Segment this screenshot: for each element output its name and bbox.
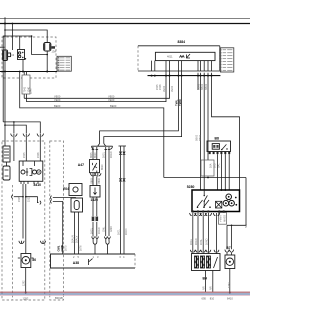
svg-text:8610: 8610 <box>98 177 101 183</box>
svg-text:BB00: BB00 <box>205 83 208 90</box>
wires bracket straight down <box>103 147 114 236</box>
horizontal link y=177.5 <box>164 177 246 212</box>
svg-text:1240: 1240 <box>28 86 31 92</box>
control unit A38 <box>51 254 136 268</box>
V384 pin stubs <box>152 61 212 71</box>
wires into heater unit <box>14 137 40 161</box>
connector pair 2 <box>23 134 29 137</box>
wire relay to bus <box>31 35 48 71</box>
connector merge 12 <box>92 237 99 255</box>
relay R1 <box>44 43 57 54</box>
svg-text:NR: NR <box>202 286 205 290</box>
heater control unit K1 <box>19 161 43 181</box>
svg-text:16CL: 16CL <box>118 228 121 235</box>
connector merge 13 <box>104 237 110 255</box>
supply line 1 <box>0 18 250 20</box>
wires to A38 <box>93 222 97 237</box>
svg-text:8410: 8410 <box>34 183 42 187</box>
connector pair 1 <box>11 134 17 137</box>
staircase wire 2 from V384 <box>104 71 182 144</box>
svg-text:NR: NR <box>245 224 248 228</box>
svg-text:8410: 8410 <box>227 297 233 301</box>
branch to connector right <box>25 196 41 205</box>
supply line BB00 <box>0 23 250 25</box>
wires bracket to A47 <box>92 147 111 160</box>
wires P2 down <box>93 197 97 216</box>
splice block S2 <box>92 217 98 222</box>
sensor E04a <box>69 184 82 196</box>
wire labels right pair <box>118 228 128 235</box>
wire drop to fuse A <box>12 23 14 50</box>
wires E04 down <box>75 212 79 254</box>
svg-text:16GD: 16GD <box>110 151 113 158</box>
svg-text:16CD: 16CD <box>125 228 128 235</box>
wire labels <box>18 196 31 202</box>
wire BE00 long run <box>20 72 164 178</box>
wire fuse A down <box>13 121 15 133</box>
B8 pin labels <box>210 163 221 168</box>
svg-text:4011: 4011 <box>167 55 173 59</box>
wire VE00 run 1 <box>24 71 169 98</box>
svg-text:16AUV: 16AUV <box>71 235 74 243</box>
staircase wire 1 from V384 <box>100 71 179 144</box>
svg-text:16ALV: 16ALV <box>76 235 79 243</box>
wire branch to switch B <box>3 36 31 122</box>
svg-text:1506: 1506 <box>159 84 162 90</box>
connector pair 11 <box>95 173 101 176</box>
svg-text:7041: 7041 <box>24 86 27 92</box>
svg-text:16A: 16A <box>210 163 213 168</box>
connector block P5 <box>3 146 10 162</box>
svg-text:13A: 13A <box>51 50 56 54</box>
connector pair 8 <box>19 241 24 244</box>
svg-text:16GL: 16GL <box>103 151 106 158</box>
wire main left vertical <box>4 17 6 146</box>
svg-text:5280: 5280 <box>187 185 195 189</box>
wire pair down-left <box>24 72 26 102</box>
wire motor to ground rail <box>23 268 27 293</box>
wire labels below bus <box>156 83 208 92</box>
labels right <box>245 224 248 228</box>
svg-text:GML: GML <box>103 226 106 232</box>
node 695 810 <box>202 297 215 301</box>
svg-text:GMD: GMD <box>60 245 64 251</box>
ground rail blue <box>0 293 250 295</box>
svg-text:1292: 1292 <box>23 280 26 286</box>
svg-text:1505: 1505 <box>23 152 26 158</box>
L wire to M2 <box>225 212 246 256</box>
svg-text:810: 810 <box>210 297 215 301</box>
K1 pins down <box>21 181 38 184</box>
connector pair 10 <box>90 173 95 176</box>
svg-text:GMD: GMD <box>110 226 113 232</box>
svg-text:BE00: BE00 <box>110 104 117 108</box>
svg-text:8610: 8610 <box>101 164 104 170</box>
svg-text:A38: A38 <box>73 261 79 265</box>
svg-text:8384: 8384 <box>178 40 186 44</box>
fuse box enclosure (dashed) <box>2 37 56 78</box>
wire pair labels <box>24 86 31 92</box>
connector table G2 <box>219 48 234 72</box>
svg-text:B4: B4 <box>203 277 207 281</box>
connector row C001 <box>190 213 212 216</box>
label box goto <box>22 75 30 94</box>
wire M2 to ground <box>228 269 231 294</box>
svg-text:B7: B7 <box>226 246 230 250</box>
dashed enclosure L1 <box>2 141 45 300</box>
diode unit A47 <box>90 160 100 173</box>
wire pair right mid <box>119 146 127 254</box>
svg-text:+VAN: +VAN <box>220 215 223 222</box>
wire K1 to blower motor <box>25 184 27 254</box>
svg-text:NR: NR <box>210 286 213 290</box>
svg-text:VE00: VE00 <box>108 94 115 98</box>
svg-text:1506: 1506 <box>37 152 40 158</box>
svg-text:BB00: BB00 <box>195 134 198 141</box>
wire L-route to C001 right <box>212 73 240 190</box>
wires B4 to ground <box>202 271 212 293</box>
svg-text:VE00: VE00 <box>54 98 61 102</box>
wires switch to bus <box>22 60 24 72</box>
svg-text:16GL: 16GL <box>190 238 193 245</box>
svg-text:8610: 8610 <box>94 152 97 158</box>
bus 30 right <box>148 75 221 77</box>
svg-text:BB00: BB00 <box>201 83 204 90</box>
svg-text:80: 80 <box>32 258 36 262</box>
wire labels mid low <box>91 227 101 234</box>
svg-text:1292: 1292 <box>23 296 29 300</box>
wire branch to connectors <box>3 122 40 133</box>
BSI unit V384 outline <box>138 46 220 71</box>
svg-text:TWD: TWD <box>178 98 182 106</box>
C001 middle switch <box>204 190 208 207</box>
svg-text:16NL: 16NL <box>200 238 203 245</box>
sensor E04b <box>71 198 83 212</box>
V384 inner strip <box>155 52 215 60</box>
svg-text:1292: 1292 <box>228 282 231 288</box>
bold wire labels <box>174 98 182 106</box>
wires V384 down right <box>201 73 209 190</box>
svg-text:E04: E04 <box>63 187 69 191</box>
svg-text:MASS: MASS <box>223 215 226 222</box>
branch to connector left <box>12 195 24 199</box>
stub wire 197 <box>165 73 213 90</box>
ground rail pink <box>0 295 250 297</box>
net labels VE00 <box>54 94 117 108</box>
connector bracket C10 <box>92 144 113 150</box>
svg-text:1675: 1675 <box>64 245 67 251</box>
svg-text:16GD: 16GD <box>98 227 101 234</box>
switch S1 <box>18 50 27 60</box>
junction unit C001 <box>192 190 240 212</box>
resistor unit P2 <box>90 186 100 198</box>
junction box J1 <box>201 160 214 176</box>
wires B8 to C001 <box>218 154 230 191</box>
connector unit B4 <box>192 254 221 271</box>
switch unit B8 <box>207 141 231 152</box>
L2 hooks <box>51 196 76 254</box>
fuse F1 <box>3 50 15 61</box>
wires into P2 <box>93 177 97 186</box>
C001 bottom pin marks <box>192 210 225 212</box>
dashed divider <box>12 185 14 300</box>
wire K1 to connector <box>22 184 24 239</box>
svg-text:VE00: VE00 <box>108 98 115 102</box>
svg-text:BB00: BB00 <box>199 134 202 141</box>
wire labels mid <box>91 177 101 183</box>
connector pair 3 <box>37 134 43 137</box>
wires C001 to B4 <box>193 216 217 253</box>
relay P6 <box>3 162 10 180</box>
svg-text:1676: 1676 <box>79 245 82 251</box>
connector pair 9 <box>40 241 45 244</box>
wire labels E04 <box>71 235 78 243</box>
svg-text:B001B: B001B <box>55 296 63 300</box>
svg-text:BE00: BE00 <box>54 104 61 108</box>
wire labels 16V 86D <box>23 152 40 158</box>
connector pair right of C001 <box>213 213 219 216</box>
wire VE00 run 2 <box>26 71 166 102</box>
dashed enclosure L2 <box>50 141 64 300</box>
svg-text:16ND: 16ND <box>205 238 208 245</box>
svg-text:B8: B8 <box>215 137 219 141</box>
B4 approach connectors <box>190 250 219 252</box>
svg-text:8605: 8605 <box>90 152 93 158</box>
connector loop b <box>119 178 125 181</box>
bus 30 left <box>0 71 57 73</box>
svg-text:695: 695 <box>202 297 207 301</box>
svg-text:VE00: VE00 <box>54 94 61 98</box>
margin tick <box>0 46 4 48</box>
connector loop a <box>119 152 125 155</box>
A38 pin numbers <box>73 255 125 259</box>
svg-text:A47: A47 <box>78 163 84 167</box>
svg-text:VE00: VE00 <box>171 85 174 92</box>
junction box J2 <box>219 213 227 225</box>
bold labels above A38 <box>56 245 82 252</box>
labels near wires 200/204 <box>195 134 202 141</box>
svg-text:GML: GML <box>56 245 60 251</box>
wire labels C001-B4 <box>190 238 209 245</box>
B8 pins <box>209 152 231 155</box>
wire branch to relay C <box>5 30 47 43</box>
svg-text:VE00: VE00 <box>163 85 166 92</box>
blower motor M1 <box>18 254 34 268</box>
ground rail red <box>0 291 250 293</box>
connector table G1 <box>57 56 71 71</box>
pump motor M2 <box>225 255 235 269</box>
svg-text:16GD: 16GD <box>195 238 198 245</box>
